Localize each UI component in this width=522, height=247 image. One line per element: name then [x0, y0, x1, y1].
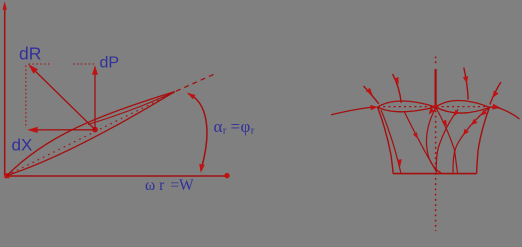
- left rotor lens bottom edge: [378, 107, 436, 112]
- svg-text:dX: dX: [12, 136, 33, 155]
- streamline upper-left 2: [393, 74, 402, 103]
- dotted axis above: [435, 57, 437, 67]
- streamline left horizontal: [331, 107, 373, 115]
- blade chord dotted: [7, 92, 177, 176]
- wake bottom line: [393, 173, 477, 175]
- blade inner upper line: [88, 92, 175, 125]
- vector dX: [30, 129, 96, 131]
- left rotor lens top edge: [378, 101, 436, 107]
- streamline upper-left 1: [364, 86, 379, 104]
- blade lower edge: [7, 92, 175, 176]
- wake streamline F: [436, 110, 458, 173]
- slipstream boundary right: [477, 107, 490, 173]
- wake streamline G: [436, 108, 457, 173]
- dotted helper vertical: [25, 66, 27, 129]
- dotted axis below: [435, 111, 437, 232]
- angle arc: [188, 94, 207, 171]
- right rotor lens top edge: [436, 100, 490, 107]
- svg-text:αr =φr: αr =φr: [214, 117, 255, 137]
- outer sweep curve right: [498, 108, 520, 120]
- vertical axis: [4, 4, 6, 176]
- arc bottom arrowhead: [199, 164, 205, 173]
- streamline upper-right 1: [464, 68, 468, 100]
- wake streamline B: [404, 111, 437, 173]
- streamline upper-right 2: [490, 82, 501, 105]
- right rotor lens bottom edge: [436, 107, 490, 113]
- chord dashed extension: [176, 75, 214, 92]
- svg-text:ω r =W: ω r =W: [145, 177, 194, 194]
- wake streamline E: [453, 108, 489, 174]
- left lens dotted chord: [378, 106, 435, 108]
- right lens dotted chord: [437, 106, 488, 108]
- baseline end dot: [224, 173, 229, 178]
- arc top arrowhead: [187, 93, 196, 100]
- svg-text:dR: dR: [19, 44, 41, 64]
- hub junction dot: [433, 104, 438, 109]
- wake streamline D: [426, 108, 441, 173]
- wake streamline A: [381, 110, 401, 173]
- horizontal baseline: [6, 175, 227, 177]
- origin dot: [4, 173, 9, 178]
- center point dot: [92, 127, 98, 133]
- dotted helper horizontal: [29, 63, 51, 65]
- tip outflow arrow right: [490, 106, 496, 108]
- vector dR: [30, 66, 96, 130]
- blade upper edge: [7, 92, 175, 176]
- svg-text:dP: dP: [100, 55, 120, 72]
- slipstream boundary left: [378, 107, 393, 173]
- central inflow line: [435, 69, 437, 105]
- vertical axis arrowhead: [3, 1, 7, 10]
- vector dP: [94, 68, 96, 130]
